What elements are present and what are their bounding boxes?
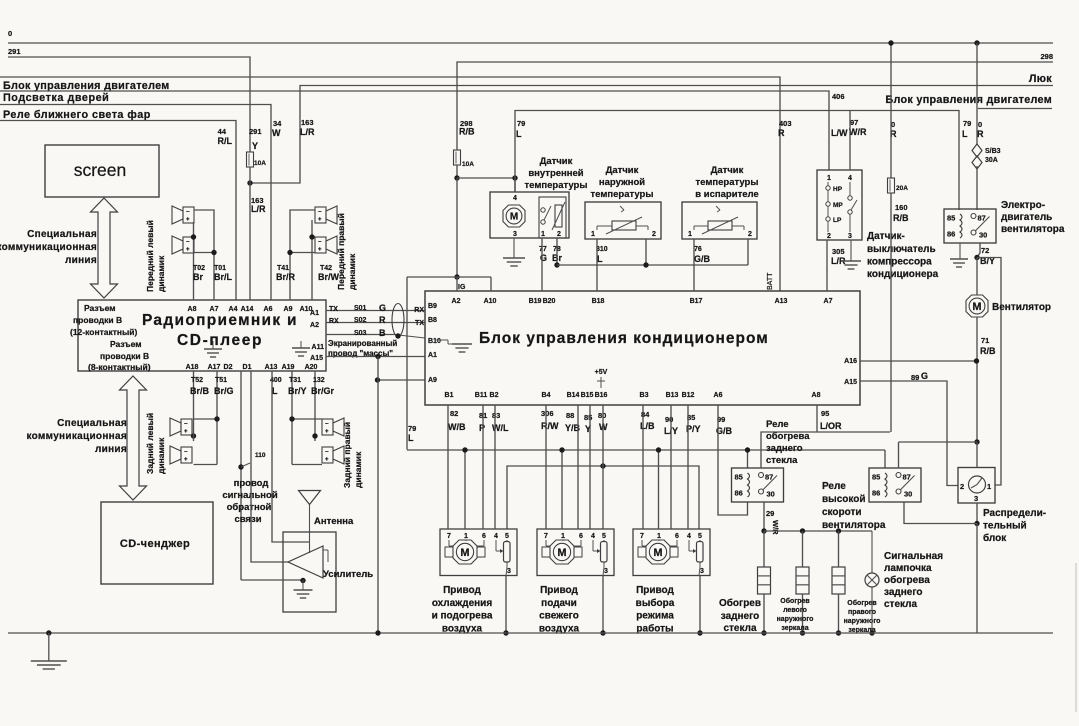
wire main ground bus <box>8 632 1053 634</box>
svg-text:G/B: G/B <box>694 254 711 264</box>
wire heater2 bottom <box>802 594 804 633</box>
svg-text:L: L <box>272 386 278 396</box>
svg-text:в испарителе: в испарителе <box>695 189 758 200</box>
wire B2 drop <box>494 405 496 529</box>
svg-text:5: 5 <box>698 533 702 540</box>
pressure switch contacts <box>826 186 830 190</box>
svg-text:коммуникационная: коммуникационная <box>26 431 127 442</box>
svg-text:B1: B1 <box>445 392 454 399</box>
wire amp ground <box>241 579 303 581</box>
svg-text:Специальная: Специальная <box>27 229 97 240</box>
svg-text:87: 87 <box>978 214 986 223</box>
svg-text:+: + <box>325 429 329 435</box>
svg-text:L/OR: L/OR <box>820 421 842 431</box>
wire radio A15 to AC A1 <box>326 356 425 358</box>
svg-text:B3: B3 <box>640 392 649 399</box>
svg-text:T01: T01 <box>214 265 226 272</box>
svg-text:B13: B13 <box>666 392 679 399</box>
wire B14 drop <box>577 405 579 529</box>
svg-text:−: − <box>184 450 188 456</box>
wire D1 to amplifier <box>251 371 288 562</box>
svg-text:7: 7 <box>447 533 451 540</box>
svg-text:A8: A8 <box>188 306 197 313</box>
node bus lamp <box>869 630 874 635</box>
svg-text:B16: B16 <box>595 392 608 399</box>
svg-text:−: − <box>325 422 329 428</box>
svg-text:кондиционера: кондиционера <box>867 269 939 280</box>
wire front right lower minus <box>290 252 315 254</box>
fuse 20A <box>888 178 895 193</box>
svg-text:86: 86 <box>872 489 880 498</box>
wire B11 drop <box>482 405 484 529</box>
svg-text:блок: блок <box>983 532 1007 544</box>
svg-text:87: 87 <box>765 473 773 482</box>
wire front left speaker inner <box>193 222 195 300</box>
wire 160 R/B down <box>890 193 892 432</box>
wire pin1-2 drop <box>561 450 563 529</box>
svg-text:L/R: L/R <box>251 204 266 214</box>
node bus h1 <box>761 630 766 635</box>
svg-text:двигатель: двигатель <box>1001 212 1052 223</box>
svg-text:2: 2 <box>557 231 561 238</box>
svg-text:BATT: BATT <box>767 272 774 290</box>
svg-text:5: 5 <box>602 533 606 540</box>
svg-text:+: + <box>186 217 190 223</box>
wire door illumination <box>0 105 271 301</box>
svg-text:3: 3 <box>974 494 978 503</box>
svg-text:80: 80 <box>598 411 606 420</box>
svg-text:4: 4 <box>687 533 691 540</box>
svg-text:вентилятора: вентилятора <box>822 520 886 531</box>
arrow special communication line lower <box>120 376 147 500</box>
heater rear window <box>758 567 771 594</box>
wire engine-control-left <box>0 77 780 291</box>
node bus ground <box>46 630 51 635</box>
wire IG to A2 <box>456 277 458 291</box>
ground pressure switch <box>841 260 861 262</box>
svg-text:обогрева: обогрева <box>884 574 930 586</box>
wire sunroof <box>250 86 1053 184</box>
svg-text:2: 2 <box>960 482 964 491</box>
node front-left minus <box>211 250 216 255</box>
speaker front left upper <box>183 207 194 223</box>
wire front right speaker inner <box>311 220 313 300</box>
svg-text:Блок управления двигателем: Блок управления двигателем <box>3 80 170 92</box>
svg-text:291: 291 <box>249 127 262 136</box>
svg-text:310: 310 <box>596 246 608 253</box>
wire 76 to B17 <box>693 239 695 291</box>
svg-text:B14: B14 <box>567 392 580 399</box>
wire D2 feedback <box>240 371 242 580</box>
speaker rear left lower <box>181 447 192 463</box>
block amplifier <box>283 532 336 612</box>
svg-text:A17: A17 <box>208 364 221 371</box>
svg-text:1: 1 <box>827 175 831 182</box>
antenna <box>299 491 321 505</box>
svg-text:20A: 20A <box>896 185 908 192</box>
svg-text:1: 1 <box>541 231 545 238</box>
svg-text:S02: S02 <box>354 317 367 324</box>
wire S01 G <box>326 310 425 312</box>
node pin5 bus mid <box>600 463 605 468</box>
svg-text:A20: A20 <box>305 364 318 371</box>
wire heater3 bottom <box>838 594 840 633</box>
svg-text:Антенна: Антенна <box>314 516 354 527</box>
wire 0 bus <box>8 42 1053 44</box>
svg-text:Y: Y <box>252 141 258 151</box>
svg-text:89: 89 <box>911 373 919 382</box>
wire relay2 87 up <box>898 442 900 468</box>
node sensor common b <box>643 262 648 267</box>
node heater bus a <box>761 528 766 533</box>
wire sensor2 pin2 <box>645 239 647 265</box>
wire S02 R <box>326 322 425 324</box>
svg-text:линия: линия <box>65 255 97 266</box>
svg-text:A18: A18 <box>186 364 199 371</box>
svg-text:30: 30 <box>979 231 987 240</box>
svg-text:температуры: температуры <box>591 189 654 200</box>
wire relay1 87 up <box>761 432 890 468</box>
svg-text:30: 30 <box>767 490 775 499</box>
svg-text:высокой: высокой <box>822 494 866 505</box>
wire actuator2 pin3 to bus <box>602 576 604 634</box>
node bus h3 <box>836 630 841 635</box>
fusible link S/B3 30A <box>972 144 982 157</box>
svg-text:−: − <box>325 450 329 456</box>
svg-text:2: 2 <box>748 231 752 238</box>
wire A15 89G <box>860 381 958 486</box>
node distribution bottom <box>974 521 979 526</box>
node shield-ground junction <box>375 354 380 359</box>
wire 79L bus <box>407 449 885 451</box>
svg-text:Реле ближнего света фар: Реле ближнего света фар <box>3 109 151 121</box>
svg-text:T42: T42 <box>320 265 332 272</box>
svg-text:проводки В: проводки В <box>100 351 149 361</box>
wire relay2 coil+ to bus <box>884 450 886 468</box>
svg-text:85: 85 <box>584 413 592 422</box>
ground inside AC near B10 <box>435 339 448 341</box>
svg-text:вентилятора: вентилятора <box>1001 224 1065 235</box>
svg-text:выбора: выбора <box>636 597 675 609</box>
svg-text:внутренней: внутренней <box>528 168 583 179</box>
wire heater bus <box>764 530 872 532</box>
svg-text:3: 3 <box>848 233 852 240</box>
svg-text:B19: B19 <box>529 298 542 305</box>
svg-text:87: 87 <box>903 473 911 482</box>
svg-text:85: 85 <box>735 473 743 482</box>
block compressor pressure switch <box>817 170 862 240</box>
svg-text:Обогрев: Обогрев <box>719 597 761 609</box>
svg-text:заднего: заднего <box>721 611 760 622</box>
svg-text:Обогрев: Обогрев <box>847 599 877 607</box>
fuse 10A AC <box>454 150 461 165</box>
svg-text:W/R: W/R <box>771 520 780 535</box>
svg-text:Br/R: Br/R <box>276 272 296 282</box>
svg-text:IG: IG <box>458 284 466 291</box>
svg-text:(12-контактный): (12-контактный) <box>70 327 138 337</box>
svg-text:LP: LP <box>833 217 842 224</box>
svg-text:305: 305 <box>832 247 845 256</box>
wire actuator pin3 <box>603 562 605 567</box>
svg-text:T51: T51 <box>215 377 227 384</box>
svg-text:левого: левого <box>783 607 807 614</box>
svg-text:сигнальной: сигнальной <box>222 490 278 501</box>
svg-text:1: 1 <box>688 231 692 238</box>
svg-text:R/B: R/B <box>980 346 996 356</box>
svg-text:HP: HP <box>833 186 843 193</box>
svg-text:2: 2 <box>827 233 831 240</box>
svg-text:скороти: скороти <box>822 507 862 518</box>
wire A6 to relay1 coil- <box>718 405 748 515</box>
svg-text:Задний левый: Задний левый <box>145 413 155 474</box>
svg-text:Радиоприемник и: Радиоприемник и <box>142 312 298 329</box>
block screen <box>45 145 159 197</box>
heater right mirror <box>832 567 845 594</box>
svg-text:110: 110 <box>255 452 266 459</box>
svg-text:(8-контактный): (8-контактный) <box>88 362 151 372</box>
svg-text:Реле: Реле <box>766 419 789 430</box>
svg-text:A13: A13 <box>775 298 788 305</box>
node 0 bus tap b <box>974 40 979 45</box>
svg-text:7: 7 <box>640 533 644 540</box>
motor actuator <box>646 540 670 564</box>
svg-text:86: 86 <box>947 230 955 239</box>
wire 310 to B18 <box>596 239 598 291</box>
node heater bus c <box>836 528 841 533</box>
node bus amp <box>375 630 380 635</box>
wire 79L bus drop <box>406 277 408 450</box>
svg-text:W/R: W/R <box>849 127 867 137</box>
svg-text:Br/B: Br/B <box>190 386 210 396</box>
wire relay1 coil+ to bus <box>747 450 749 468</box>
svg-text:298: 298 <box>1040 52 1053 61</box>
block distribution <box>958 468 995 504</box>
svg-text:R/B: R/B <box>893 213 909 223</box>
wire 400 L to antenna amp <box>272 371 309 542</box>
fuse 10A radio <box>247 152 254 167</box>
svg-text:A1: A1 <box>310 310 319 317</box>
svg-text:G: G <box>921 371 928 381</box>
node 0 bus tap a <box>888 40 893 45</box>
svg-text:+: + <box>318 247 322 253</box>
svg-text:97: 97 <box>850 118 858 127</box>
svg-text:проводки В: проводки В <box>73 315 122 325</box>
svg-text:4: 4 <box>513 195 517 202</box>
svg-text:83: 83 <box>492 411 500 420</box>
svg-text:−: − <box>186 210 190 216</box>
node bus 79L d <box>745 447 750 452</box>
motor fan <box>966 295 988 317</box>
svg-text:стекла: стекла <box>766 455 798 466</box>
svg-text:L/R: L/R <box>300 127 315 137</box>
wire sensor common <box>557 264 748 266</box>
svg-text:компрессора: компрессора <box>867 257 932 268</box>
svg-text:T02: T02 <box>193 265 205 272</box>
node rear-right top <box>289 416 294 421</box>
svg-text:Датчик: Датчик <box>540 156 573 167</box>
svg-text:132: 132 <box>313 377 325 384</box>
node A16 junction <box>974 358 979 363</box>
svg-text:82: 82 <box>450 409 458 418</box>
svg-text:G: G <box>379 303 386 313</box>
svg-text:B9: B9 <box>428 303 437 310</box>
svg-text:M: M <box>653 547 662 559</box>
svg-text:R/W: R/W <box>541 421 559 431</box>
svg-text:Блок управления кондиционером: Блок управления кондиционером <box>479 330 769 347</box>
svg-text:screen: screen <box>74 160 127 180</box>
svg-text:S03: S03 <box>354 330 367 337</box>
node front-left tie <box>191 234 196 239</box>
wire 291 to radio A14 <box>249 167 251 300</box>
svg-text:85: 85 <box>947 214 955 223</box>
node rear-left tie <box>191 433 196 438</box>
svg-text:охлаждения: охлаждения <box>432 598 493 609</box>
svg-text:B20: B20 <box>543 298 556 305</box>
wire B4 drop <box>545 405 547 529</box>
wire heater1 bottom <box>763 594 765 633</box>
svg-text:R: R <box>379 315 386 325</box>
motor actuator <box>550 540 574 564</box>
svg-text:Привод: Привод <box>636 585 674 596</box>
svg-text:TX: TX <box>329 306 338 313</box>
svg-text:T31: T31 <box>289 377 301 384</box>
wire rear left inner <box>193 371 195 430</box>
svg-text:−: − <box>184 422 188 428</box>
potentiometer actuator <box>504 542 511 563</box>
block AC control unit <box>425 291 860 405</box>
svg-text:линия: линия <box>95 444 127 455</box>
svg-text:и подогрева: и подогрева <box>432 611 493 622</box>
svg-text:M: M <box>460 547 469 559</box>
node sensor common a <box>554 262 559 267</box>
wire relay2-87 feed <box>899 441 978 443</box>
svg-text:+: + <box>186 247 190 253</box>
wire motor top <box>976 258 978 296</box>
svg-text:R/B: R/B <box>459 127 475 137</box>
svg-text:88: 88 <box>566 411 574 420</box>
svg-text:6: 6 <box>482 533 486 540</box>
svg-text:A7: A7 <box>824 298 833 305</box>
svg-text:Br/Y: Br/Y <box>288 386 307 396</box>
svg-text:A7: A7 <box>210 306 219 313</box>
ground sensor1 <box>503 257 525 259</box>
svg-text:подачи: подачи <box>541 598 577 609</box>
svg-text:90: 90 <box>665 415 673 424</box>
wire rear right inner <box>314 371 316 441</box>
svg-text:выключатель: выключатель <box>867 244 936 255</box>
wire 97 W/R drop <box>849 110 851 170</box>
node 298/79 junction a <box>454 175 459 180</box>
arrow special communication line upper <box>91 198 118 298</box>
speaker front right lower <box>315 237 326 253</box>
svg-text:R: R <box>977 129 984 139</box>
svg-text:0: 0 <box>8 29 12 38</box>
svg-text:Реле: Реле <box>822 481 846 492</box>
node shield <box>395 333 400 338</box>
svg-text:P: P <box>479 423 485 433</box>
svg-text:163: 163 <box>301 118 314 127</box>
op-amp amplifier triangle <box>288 546 323 578</box>
svg-text:температуры: температуры <box>525 180 588 191</box>
svg-text:0: 0 <box>978 120 982 129</box>
svg-text:+: + <box>325 457 329 463</box>
node feedback junction <box>238 464 243 469</box>
svg-text:76: 76 <box>694 246 702 253</box>
svg-text:+5V: +5V <box>595 369 608 376</box>
wire S03 B shield <box>326 334 394 336</box>
svg-text:Передний левый: Передний левый <box>145 220 155 292</box>
shield ellipse <box>392 304 404 337</box>
wire heater2 top <box>802 531 804 567</box>
svg-text:обратной: обратной <box>227 502 272 513</box>
svg-text:Разъем: Разъем <box>84 303 116 313</box>
svg-text:Привод: Привод <box>443 585 481 596</box>
svg-text:79: 79 <box>408 424 416 433</box>
wire 291 <box>8 57 250 152</box>
node front-right tie <box>309 234 314 239</box>
speaker rear right lower <box>322 447 333 463</box>
svg-text:30: 30 <box>904 490 912 499</box>
svg-text:−: − <box>318 240 322 246</box>
svg-text:TX: TX <box>415 320 424 327</box>
svg-text:5: 5 <box>505 533 509 540</box>
svg-text:наружной: наружной <box>599 177 645 188</box>
svg-text:R/L: R/L <box>218 136 233 146</box>
svg-text:B11: B11 <box>475 392 488 399</box>
wire relay2 30 to distribution <box>904 502 977 524</box>
wire B1 drop <box>447 405 449 529</box>
node bus h2 <box>800 630 805 635</box>
wire ig drop <box>456 178 458 277</box>
svg-text:3: 3 <box>700 568 704 575</box>
svg-text:77: 77 <box>539 246 547 253</box>
wire actuator1 pin3 to bus <box>505 576 507 634</box>
svg-text:+: + <box>318 217 322 223</box>
svg-text:зеркала: зеркала <box>781 625 808 632</box>
svg-text:72: 72 <box>981 246 989 255</box>
svg-text:A13: A13 <box>265 364 278 371</box>
svg-text:Br/G: Br/G <box>214 386 234 396</box>
node bus a1 <box>503 630 508 635</box>
node distribution top <box>974 439 979 444</box>
thermistor outside <box>612 221 636 230</box>
wire 298 <box>457 62 1053 150</box>
svg-text:L: L <box>597 254 603 264</box>
relay rear window defogger <box>732 468 784 502</box>
speaker rear right upper <box>322 419 333 435</box>
wire to distribution right branch <box>977 258 1001 486</box>
svg-text:71: 71 <box>981 336 989 345</box>
svg-text:Br/Gr: Br/Gr <box>311 386 335 396</box>
svg-text:динамик: динамик <box>347 253 357 290</box>
wire heater1 top <box>763 531 765 567</box>
node 72 junction <box>974 255 979 260</box>
wire underline engine right <box>978 108 1052 110</box>
node bus a3 <box>697 630 702 635</box>
svg-text:A6: A6 <box>714 392 723 399</box>
svg-text:A11: A11 <box>312 344 325 351</box>
speaker rear left upper <box>181 419 192 435</box>
svg-text:W/B: W/B <box>448 422 466 432</box>
svg-text:3: 3 <box>513 231 517 238</box>
svg-text:L/B: L/B <box>640 421 655 431</box>
svg-text:30A: 30A <box>985 157 998 164</box>
wire relay1 30 down <box>763 502 765 531</box>
svg-text:403: 403 <box>779 119 792 128</box>
motor interior sensor <box>503 205 525 227</box>
wire line under engine label <box>0 91 829 170</box>
wire A16 <box>860 360 976 362</box>
